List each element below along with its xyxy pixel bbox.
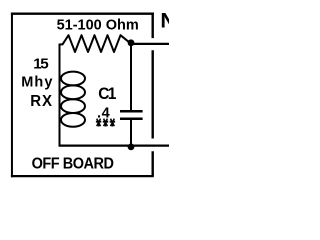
svg-text:C1: C1: [98, 84, 116, 103]
svg-text:Mhy: Mhy: [21, 74, 53, 90]
svg-text:OFF BOARD: OFF BOARD: [32, 155, 115, 173]
svg-text:51-100 Ohm: 51-100 Ohm: [57, 17, 139, 33]
svg-text:N: N: [160, 8, 169, 33]
svg-text:15: 15: [33, 56, 49, 73]
svg-text:RX: RX: [30, 93, 53, 110]
